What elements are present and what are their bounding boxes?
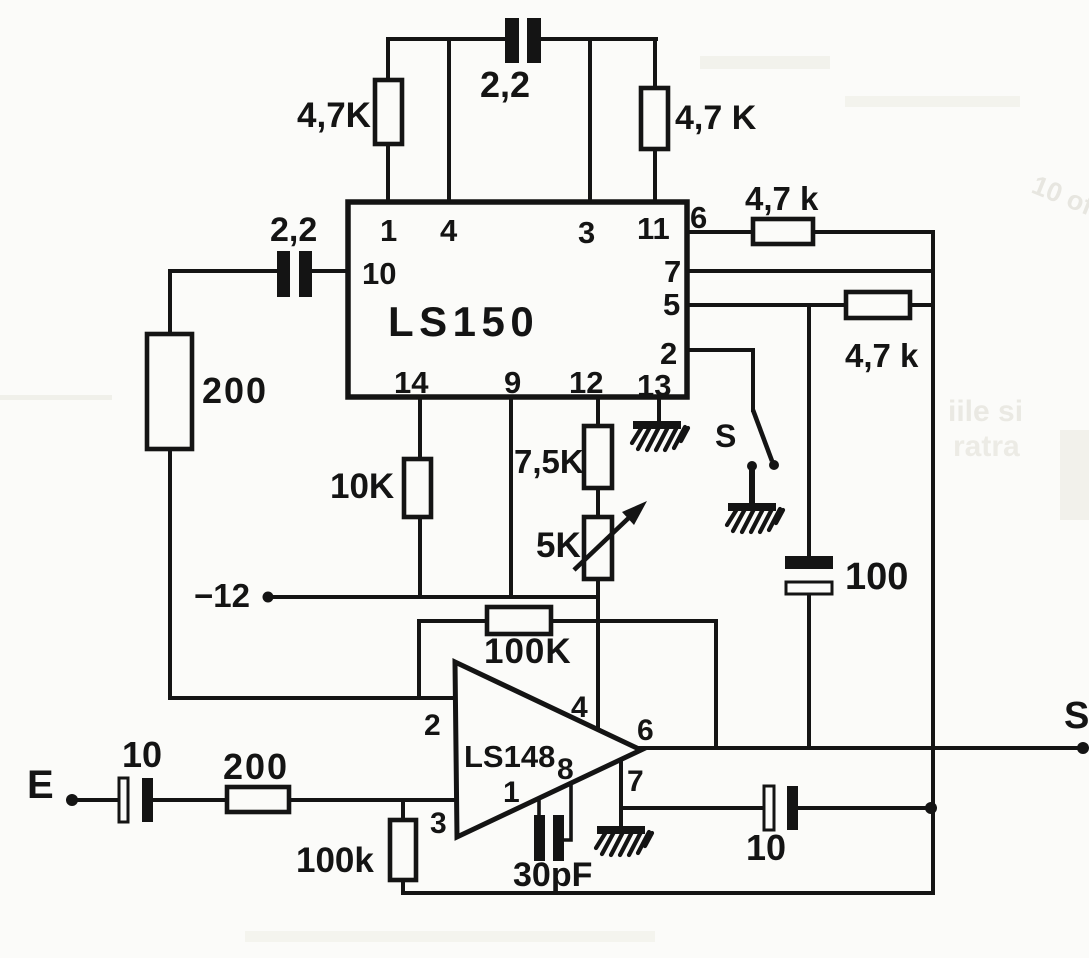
- svg-text:LS148: LS148: [464, 739, 555, 774]
- wire pin 11 lead to top rail: [653, 39, 657, 204]
- resistor R 10K: [404, 459, 431, 517]
- svg-text:2,2: 2,2: [270, 211, 317, 249]
- terminal S output: [1077, 742, 1089, 754]
- wire right vertical bus: [931, 232, 935, 893]
- wire bottom ground rail: [403, 891, 933, 895]
- svg-text:4,7 K: 4,7 K: [675, 99, 757, 137]
- svg-text:200: 200: [223, 746, 289, 787]
- svg-text:E: E: [27, 763, 54, 807]
- wire op-amp output to S terminal: [640, 746, 1082, 750]
- ground switch: [727, 503, 783, 532]
- wire pin 4 to top rail: [447, 39, 451, 204]
- wire 100 cap lower lead to output line: [807, 594, 811, 748]
- svg-text:10K: 10K: [330, 467, 394, 506]
- svg-text:9: 9: [504, 365, 521, 400]
- wire 100K left leg down to input node: [417, 621, 421, 697]
- wire pin 2 to switch S: [688, 350, 753, 410]
- potentiometer R 5K: [584, 517, 612, 579]
- svg-text:4,7K: 4,7K: [297, 96, 371, 135]
- op-amp U2 LS148: [455, 662, 641, 837]
- switch S arm: [753, 410, 779, 470]
- svg-text:10: 10: [746, 827, 786, 868]
- wire 100K feedback upper run: [419, 619, 716, 623]
- svg-text:ratra: ratra: [953, 430, 1020, 463]
- resistor R 4,7K left top: [375, 80, 402, 144]
- svg-text:6: 6: [690, 200, 707, 235]
- svg-text:12: 12: [569, 365, 603, 400]
- svg-text:S: S: [1064, 695, 1089, 737]
- wire pin 9 down to -12 line: [509, 397, 513, 596]
- wire E input to op-amp pin 3: [74, 798, 456, 802]
- capacitor C 10 input: [119, 778, 153, 822]
- wire 5K bottom down to op-amp pin 4: [596, 579, 600, 731]
- ground pin 13: [632, 421, 688, 450]
- wire pin 1 lead to top rail: [386, 39, 390, 204]
- capacitor C 2,2 top: [505, 18, 541, 63]
- resistor R 200 series input: [227, 787, 289, 812]
- wire 100k bias resistor legs: [401, 801, 405, 893]
- svg-text:10: 10: [122, 734, 162, 775]
- capacitor C 100: [785, 556, 833, 594]
- wire pin 13 to ground: [657, 397, 661, 422]
- svg-text:2,2: 2,2: [480, 64, 530, 105]
- svg-text:S: S: [715, 418, 736, 454]
- svg-text:5: 5: [663, 287, 680, 322]
- wire pin 7 to bus: [688, 269, 933, 273]
- resistor R 100k bias: [390, 820, 416, 880]
- wire -12 feed line: [268, 595, 598, 599]
- svg-text:11: 11: [637, 211, 670, 246]
- terminal E: [66, 794, 78, 806]
- IC U1 LS150 body: [348, 202, 687, 397]
- svg-text:7,5K: 7,5K: [514, 443, 584, 480]
- wire pin 3 to top rail: [588, 39, 592, 204]
- svg-text:100: 100: [845, 556, 908, 598]
- svg-text:−12: −12: [194, 577, 250, 614]
- svg-text:100k: 100k: [296, 841, 374, 880]
- svg-text:1: 1: [380, 213, 397, 248]
- wire pin 14 to 10K: [418, 397, 422, 596]
- wire pin 10 to coupling cap: [170, 271, 346, 334]
- wire 200-resistor bottom leg to op-amp input 2: [170, 449, 456, 698]
- svg-text:14: 14: [394, 365, 429, 400]
- resistor R 4,7k pin 6: [753, 219, 813, 244]
- capacitor C 10 output: [764, 786, 798, 830]
- svg-text:5K: 5K: [536, 526, 581, 565]
- svg-text:3: 3: [430, 807, 447, 840]
- wire 100K right leg down to output: [714, 621, 718, 746]
- switch S fixed contact: [747, 461, 757, 504]
- resistor R 7,5K: [584, 426, 612, 488]
- wire top supply rail: [388, 37, 656, 41]
- wire 100 cap upper lead from pin 5 line: [807, 305, 811, 556]
- ground op-amp pin 7: [596, 826, 652, 855]
- svg-text:100K: 100K: [484, 632, 572, 671]
- capacitor C 30pF compensation: [534, 783, 571, 861]
- svg-text:7: 7: [627, 765, 644, 798]
- svg-text:4: 4: [440, 213, 458, 248]
- svg-text:13: 13: [637, 368, 671, 403]
- svg-text:10: 10: [362, 256, 396, 291]
- capacitor C 2,2 input (pin 10): [277, 251, 312, 297]
- svg-text:4: 4: [571, 691, 588, 724]
- svg-text:1: 1: [503, 776, 520, 809]
- svg-text:30pF: 30pF: [513, 856, 592, 894]
- svg-text:8: 8: [557, 753, 574, 786]
- node -12 terminal: [263, 592, 274, 603]
- svg-text:6: 6: [637, 714, 654, 747]
- resistor R 200 input stage: [147, 334, 192, 449]
- svg-text:2: 2: [424, 709, 441, 742]
- node junction output bus: [925, 802, 937, 814]
- svg-text:200: 200: [202, 370, 268, 411]
- potentiometer arrow: [574, 501, 647, 570]
- svg-text:3: 3: [578, 215, 595, 250]
- resistor R 4,7K right top: [641, 88, 668, 149]
- svg-text:iile si: iile si: [948, 395, 1023, 428]
- svg-text:7: 7: [664, 254, 681, 289]
- wire op-amp pin 7 to ground and decoupling: [621, 757, 931, 826]
- svg-text:4,7 k: 4,7 k: [845, 337, 919, 374]
- svg-text:2: 2: [660, 336, 677, 371]
- svg-text:LS150: LS150: [388, 298, 539, 345]
- resistor R 4,7k pin 5: [846, 292, 910, 318]
- wire pin 12 to 7,5K chain: [596, 397, 600, 517]
- wire pin 6 through 4,7k to bus: [688, 230, 933, 234]
- resistor R 100K feedback: [487, 607, 551, 634]
- svg-text:4,7 k: 4,7 k: [745, 180, 819, 217]
- wire pin 5 through 4,7k to bus: [688, 303, 933, 307]
